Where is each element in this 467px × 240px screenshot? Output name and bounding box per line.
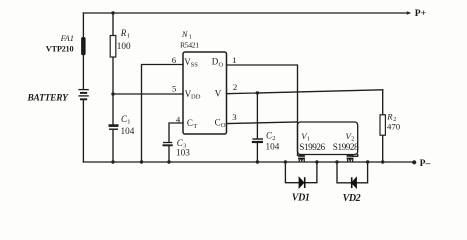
terminal arrow P+ — [407, 11, 411, 15]
svg-text:DD: DD — [191, 94, 201, 101]
node dot VD1 right — [315, 160, 318, 163]
svg-text:V: V — [215, 88, 222, 98]
node dot C1 bottom — [111, 160, 114, 163]
capacitor C1 plates — [109, 126, 119, 130]
svg-text:3: 3 — [232, 112, 237, 122]
svg-text:S19926: S19926 — [299, 142, 325, 152]
svg-text:O: O — [221, 122, 226, 129]
module box dual MOSFET — [298, 122, 358, 155]
battery B1 plates — [78, 90, 88, 100]
svg-text:BATTERY: BATTERY — [27, 93, 70, 103]
capacitor C2 plates — [252, 139, 263, 142]
svg-text:SS: SS — [191, 62, 199, 69]
svg-text:C: C — [187, 118, 193, 128]
terminal dot P- — [412, 160, 416, 164]
op-amp U1 / IC N1 R5421 box — [183, 52, 227, 134]
diode VD2 — [352, 177, 357, 188]
diode VD1 — [299, 177, 305, 188]
svg-text:P–: P– — [420, 158, 431, 169]
svg-text:1: 1 — [232, 55, 236, 65]
node dot VD2 left — [335, 160, 338, 163]
svg-text:N: N — [181, 30, 188, 39]
svg-text:1: 1 — [127, 118, 130, 125]
node dot top R1 — [111, 11, 114, 14]
node dot R2 bottom — [381, 160, 384, 163]
svg-text:103: 103 — [176, 148, 190, 158]
svg-text:VD1: VD1 — [292, 193, 310, 204]
svg-text:S19928: S19928 — [333, 142, 359, 152]
wire VD1 loop — [285, 162, 317, 183]
svg-text:C: C — [215, 118, 221, 128]
svg-text:2: 2 — [233, 82, 237, 92]
svg-text:104: 104 — [121, 126, 135, 136]
svg-text:VTP210: VTP210 — [46, 45, 74, 54]
wire pin4 CT to C3 — [169, 123, 183, 142]
wire R1 branch vertical — [112, 13, 114, 124]
wire V2 gate stub — [353, 155, 358, 157]
wire left vertical battery branch — [82, 13, 84, 162]
node dot C3 bottom — [167, 160, 170, 163]
node dot VD2 right — [366, 160, 369, 163]
svg-text:O: O — [219, 61, 224, 68]
wire pin1 DO to V1 gate — [227, 65, 298, 156]
resistor R1 body — [110, 36, 116, 58]
svg-text:1: 1 — [127, 33, 130, 40]
svg-text:5: 5 — [172, 84, 177, 94]
svg-text:6: 6 — [172, 55, 177, 65]
transistor V1 mosfet glyph — [298, 155, 305, 162]
svg-text:R: R — [386, 112, 393, 122]
node dot C2 bottom — [256, 160, 259, 163]
wire pin2 V to R2 — [227, 90, 383, 94]
wire bottom bus to P- — [83, 161, 413, 163]
svg-text:T: T — [193, 123, 197, 130]
wire C1 lower segment — [112, 130, 114, 162]
node dot VD1 left — [284, 160, 287, 163]
wire R2 vertical — [382, 90, 384, 162]
wire top bus to P+ — [83, 12, 408, 14]
wire C2 lower segment — [256, 143, 258, 162]
wire pin3 CO to module box — [227, 122, 298, 124]
node dot pin6 bottom — [140, 160, 143, 163]
svg-text:VD2: VD2 — [343, 193, 361, 204]
node dot pin5 R1 — [111, 92, 114, 95]
svg-text:4: 4 — [176, 114, 181, 124]
wire pin5 VDD to R1 node — [113, 93, 183, 95]
node dot C2 top — [256, 91, 259, 94]
svg-text:R: R — [120, 28, 127, 38]
transistor V2 mosfet glyph — [347, 155, 354, 162]
svg-text:R5421: R5421 — [180, 41, 199, 50]
fuse FA1 (PTC VTP210) — [81, 37, 86, 55]
svg-text:104: 104 — [266, 141, 280, 151]
svg-text:100: 100 — [117, 41, 131, 51]
svg-text:FA1: FA1 — [60, 34, 74, 43]
wire C2 upper segment — [256, 93, 258, 138]
svg-text:470: 470 — [387, 122, 401, 132]
wire C3 lower segment — [168, 147, 170, 162]
svg-text:P+: P+ — [415, 8, 426, 19]
capacitor C3 plates — [163, 143, 173, 146]
wire pin6 VSS to bottom bus — [142, 65, 184, 163]
wire VD2 loop — [337, 162, 368, 183]
resistor R2 body — [380, 115, 385, 135]
